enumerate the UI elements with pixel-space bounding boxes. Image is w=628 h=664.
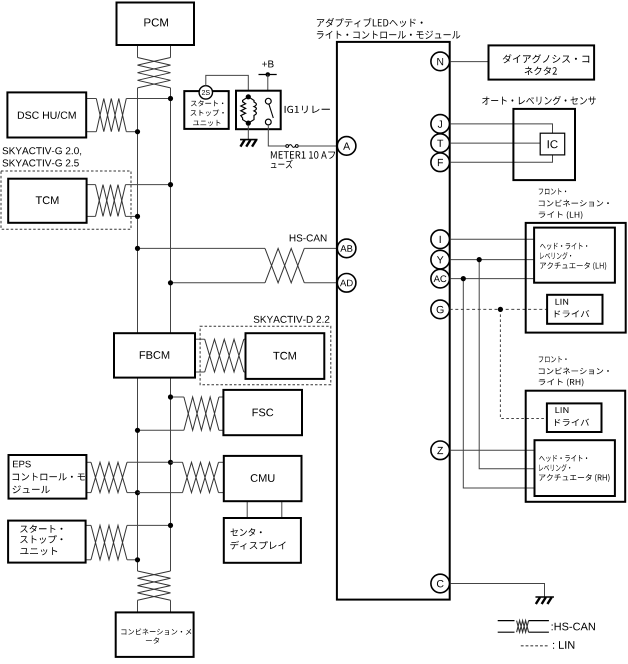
- twisted pair: FBCM to TCM (SKYACTIV-D): [205, 339, 244, 372]
- pin T: [431, 134, 450, 153]
- wire CMU CAN-L from bus: [138, 492, 183, 494]
- label module name line1: [317, 18, 423, 27]
- wire pin Y to LH actuator: [450, 259, 534, 261]
- label METER1 10 A fuse line1: [271, 151, 335, 159]
- wire HS-CAN high from bus: [138, 247, 266, 249]
- EPS control module: [9, 455, 87, 499]
- pin F: [431, 153, 450, 172]
- junction HS-CAN low: [168, 280, 173, 285]
- wire pin Z to RH actuator: [450, 449, 534, 451]
- adaptive LED headlight control module: [337, 42, 450, 600]
- junction FSC CAN-L: [135, 428, 140, 433]
- pin AB: [337, 239, 356, 258]
- relay coil node bottom: [246, 121, 251, 126]
- wire CAN bus trunk upper run: [137, 88, 139, 334]
- junction start-stop CAN-L: [135, 557, 140, 562]
- label SKYACTIV-G 2.0,: [3, 147, 82, 155]
- label SKYACTIV-G 2.5: [3, 159, 79, 166]
- twisted pair: DSC HU/CM to bus: [96, 99, 126, 132]
- front combination light RH box: [526, 391, 626, 502]
- FBCM: [114, 333, 195, 377]
- wire HS-CAN low from bus: [171, 282, 266, 284]
- ground (relay coil): [240, 139, 257, 141]
- wire CMU to center display right: [281, 501, 283, 518]
- relay IG1 box: [236, 91, 281, 130]
- wire HS-CAN low to pin AD: [304, 282, 337, 284]
- wire CMU CAN-H from bus: [171, 461, 183, 463]
- wire CMU to center display left: [246, 501, 248, 518]
- relay coil inductor branch: [248, 97, 256, 123]
- IC: [540, 133, 565, 155]
- wire fuse to pin A: [298, 145, 337, 147]
- twisted pair: FSC to bus: [184, 397, 219, 430]
- relay contact bottom: [265, 119, 271, 125]
- wire TCM(D) CAN-H stub: [244, 338, 246, 340]
- wire pin J to sensor IC: [450, 124, 553, 133]
- pin J: [431, 115, 450, 134]
- wire 2S to relay coil: [206, 75, 249, 96]
- label front combination light LH line3: [539, 211, 583, 219]
- wire start-stop CAN-L to bus: [127, 559, 138, 561]
- label front combination light LH line2: [539, 200, 609, 207]
- ground (pin C): [535, 596, 554, 598]
- wire EPS CAN-H stub: [86, 461, 91, 463]
- label front combination light RH line2: [539, 367, 609, 374]
- legend label LIN: [553, 641, 574, 649]
- headlight leveling actuator RH: [535, 440, 615, 496]
- pin C: [431, 574, 450, 593]
- wire AC branch to RH actuator: [463, 279, 533, 488]
- wire CAN bus trunk into combination meter: [137, 600, 139, 612]
- dashed box SKYACTIV-D TCM: [200, 326, 331, 385]
- TCM (SKYACTIV-D): [246, 333, 325, 379]
- wire pin C to ground: [450, 584, 545, 597]
- wire FSC CAN-L from bus: [138, 429, 184, 431]
- PCM: [117, 3, 195, 46]
- wire FSC CAN-L stub: [219, 429, 224, 431]
- label front combination light RH line1: [539, 356, 567, 362]
- wire TCM(G) CAN-L stub: [87, 215, 96, 217]
- wire FSC CAN-H stub: [219, 396, 224, 398]
- headlight leveling actuator LH: [534, 228, 615, 283]
- junction DSC CAN-L: [135, 129, 140, 134]
- wire pin F to sensor IC: [450, 155, 553, 162]
- wire pin AC to LH actuator: [450, 278, 534, 280]
- wire +B to relay contact: [267, 75, 269, 99]
- twisted pair: TCM (SKYACTIV-G) to bus: [96, 185, 126, 217]
- wire CAN bus trunk lower run: [137, 377, 139, 571]
- pin Z: [431, 441, 450, 460]
- pin G: [431, 300, 450, 319]
- junction HS-CAN high: [135, 246, 140, 251]
- legend LIN dashed line: [521, 645, 549, 647]
- label METER1 10 A fuse line2: [271, 160, 293, 169]
- legend label HS-CAN: [552, 623, 595, 631]
- twisted pair: EPS to bus: [91, 462, 127, 492]
- wire start-stop CAN-H to bus: [127, 524, 171, 526]
- wire relay coil to ground: [247, 125, 249, 139]
- pin AC: [431, 269, 450, 288]
- wire FBCM CAN-L stub: [195, 371, 205, 373]
- start-stop unit (bottom): [8, 521, 86, 563]
- relay contact top: [265, 98, 271, 104]
- twisted pair: CAN bus below PCM: [138, 58, 171, 88]
- junction AC branch: [461, 276, 466, 281]
- combination meter: [116, 612, 194, 657]
- wire pin T to sensor IC: [450, 142, 541, 144]
- wire TCM(G) CAN-L to bus: [126, 215, 138, 217]
- label module name line2: [317, 31, 460, 39]
- legend HS-CAN twisted pair symbol: [498, 620, 515, 622]
- wire Y branch to RH actuator: [479, 260, 533, 469]
- pin AD: [337, 274, 356, 293]
- LIN driver RH: [547, 403, 602, 432]
- label +B: [262, 61, 274, 68]
- junction Y branch: [477, 257, 482, 262]
- wire TCM(G) CAN-H to bus: [126, 184, 171, 186]
- dashed box SKYACTIV-G TCM: [1, 171, 131, 229]
- wire CMU CAN-L stub: [219, 492, 224, 494]
- twisted pair: CMU to bus: [183, 462, 219, 492]
- wire +B bar: [259, 74, 277, 76]
- pin A: [337, 137, 356, 156]
- wire HS-CAN high to pin AB: [304, 247, 337, 249]
- junction DSC CAN-H: [168, 96, 173, 101]
- wire G LIN branch to RH driver dashed: [500, 309, 547, 418]
- wire start-stop CAN-L stub: [86, 559, 91, 561]
- start-stop unit (top): [184, 91, 228, 129]
- wire start-stop CAN-H stub: [86, 524, 91, 526]
- pin Y: [431, 250, 450, 269]
- wire CMU CAN-H stub: [219, 461, 224, 463]
- twisted pair: HS-CAN to module: [265, 248, 304, 282]
- node +B: [266, 72, 271, 77]
- label front combination light RH line3: [539, 378, 584, 386]
- relay coil resistor branch: [241, 97, 249, 123]
- wire FBCM CAN-H stub: [195, 338, 205, 340]
- TCM (SKYACTIV-G): [8, 179, 86, 223]
- wire EPS CAN-L stub: [86, 492, 91, 494]
- junction EPS/CMU CAN-L: [135, 490, 140, 495]
- diagnosis connector 2: [489, 45, 595, 79]
- wire pin N to diagnosis connector: [450, 61, 489, 63]
- junction FSC CAN-H: [168, 394, 173, 399]
- label IG1 relay: [285, 106, 330, 114]
- wire pin I to LH actuator: [450, 238, 534, 240]
- wire DSC HU/CM CAN-H to bus: [126, 98, 170, 100]
- wire EPS CAN-L to bus: [127, 492, 138, 494]
- wire TCM(D) CAN-L stub: [244, 371, 246, 373]
- junction EPS/CMU CAN-H: [168, 460, 173, 465]
- relay coil node top: [246, 94, 251, 99]
- FSC: [223, 390, 302, 435]
- DSC HU/CM: [7, 92, 86, 137]
- fuse METER1 10A: [286, 145, 289, 148]
- junction TCM(G) CAN-H: [168, 182, 173, 187]
- wire CAN bus trunk from PCM: [137, 45, 139, 58]
- label auto leveling sensor: [482, 96, 596, 105]
- wire DSC HU/CM CAN-H stub: [86, 98, 96, 100]
- label HS-CAN: [290, 234, 327, 241]
- junction TCM(G) CAN-L: [135, 214, 140, 219]
- twisted pair: start-stop unit to bus: [91, 525, 127, 559]
- wire FSC CAN-H from bus: [171, 396, 184, 398]
- LIN driver LH: [547, 295, 602, 324]
- auto leveling sensor box: [513, 109, 575, 180]
- twisted pair: CAN bus above combination meter: [138, 571, 171, 600]
- pin N: [431, 52, 450, 71]
- wire TCM(G) CAN-H stub: [87, 184, 96, 186]
- wire DSC HU/CM CAN-L stub: [86, 131, 96, 133]
- wire EPS CAN-H to bus: [127, 461, 171, 463]
- label front combination light LH line1: [539, 188, 566, 194]
- wire DSC HU/CM CAN-L to bus: [126, 131, 137, 133]
- label SKYACTIV-D 2.2: [254, 316, 330, 323]
- CMU: [224, 456, 302, 501]
- relay contact arm: [269, 104, 273, 118]
- wire relay contact to fuse: [268, 125, 286, 146]
- connector 2S: [199, 86, 212, 99]
- junction start-stop CAN-H: [168, 523, 173, 528]
- front combination light LH box: [526, 223, 626, 333]
- wire pin G LIN to LH driver dashed: [450, 308, 547, 310]
- center display: [224, 518, 301, 563]
- pin I: [431, 230, 450, 249]
- junction G LIN branch: [498, 307, 503, 312]
